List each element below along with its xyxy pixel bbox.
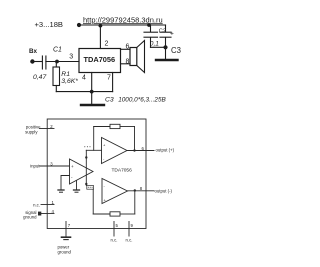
svg-text:TDA7056: TDA7056 xyxy=(112,167,133,173)
svg-text:+: + xyxy=(170,30,174,37)
svg-text:0,1: 0,1 xyxy=(150,41,159,48)
svg-text:7: 7 xyxy=(107,74,111,81)
svg-text:ground: ground xyxy=(58,250,72,255)
svg-text:n.c.: n.c. xyxy=(111,237,118,242)
svg-text:6: 6 xyxy=(126,44,130,51)
svg-text:0,47: 0,47 xyxy=(33,74,46,81)
svg-text:n.c.: n.c. xyxy=(126,237,133,242)
svg-text:Вх: Вх xyxy=(29,48,37,55)
svg-text:input: input xyxy=(30,163,40,168)
svg-text:+3...18В: +3...18В xyxy=(35,20,64,29)
svg-text:1000,0*6,3...25В: 1000,0*6,3...25В xyxy=(118,97,166,104)
svg-text:output (-): output (-) xyxy=(155,188,173,193)
svg-text:+: + xyxy=(71,164,74,169)
svg-text:C1: C1 xyxy=(53,47,62,54)
svg-text:http://299792458.3dn.ru: http://299792458.3dn.ru xyxy=(83,15,163,24)
svg-text:supply: supply xyxy=(25,129,38,134)
svg-text:TDA7056: TDA7056 xyxy=(84,55,116,64)
svg-text:C3: C3 xyxy=(105,97,114,104)
svg-text:n.c.: n.c. xyxy=(33,202,40,207)
svg-text:C2: C2 xyxy=(159,28,166,34)
svg-text:8: 8 xyxy=(126,59,130,66)
svg-text:3: 3 xyxy=(69,53,73,60)
svg-text:C3: C3 xyxy=(171,46,181,55)
svg-text:3,6K*: 3,6K* xyxy=(61,78,78,85)
svg-text:2: 2 xyxy=(105,40,109,47)
svg-text:output (+): output (+) xyxy=(156,147,175,152)
svg-text:ground: ground xyxy=(23,215,37,220)
svg-text:4: 4 xyxy=(82,75,86,82)
